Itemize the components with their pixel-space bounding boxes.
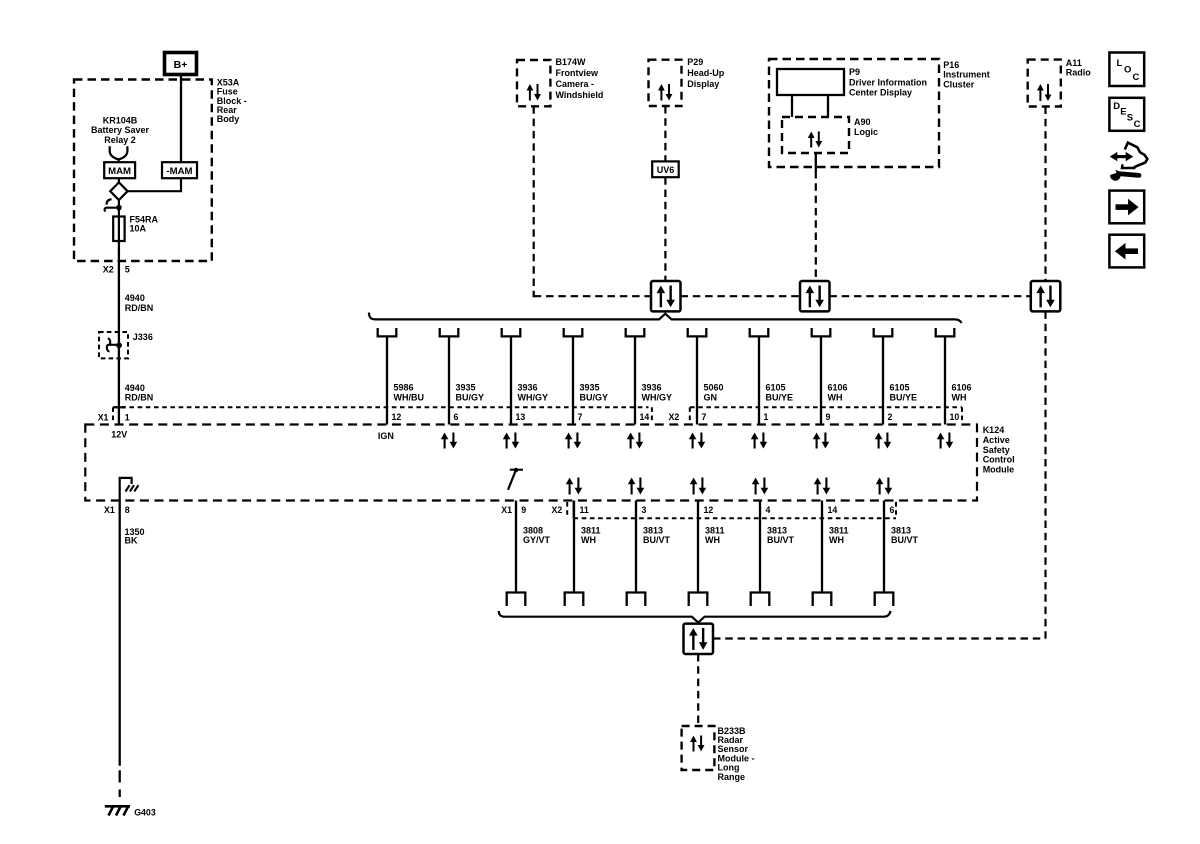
svg-text:GY/VT: GY/VT [523, 535, 551, 545]
logic unit A90 dashed box [782, 117, 849, 153]
serial data bus segment 1 dashed [534, 295, 651, 297]
wire A11 node down to radar bus dashed [1044, 311, 1046, 638]
arrows inside B233B [690, 736, 704, 752]
terminal of wire 3936 WH/GY [626, 328, 645, 336]
svg-text:RD/BN: RD/BN [125, 393, 154, 403]
svg-text:WH: WH [829, 535, 844, 545]
terminal of wire 3813 BU/VT row2 [875, 593, 894, 607]
splice J336 symbol [107, 338, 122, 351]
wire P29 to UV6 dashed [664, 106, 666, 161]
svg-text:6105: 6105 [766, 383, 786, 393]
wire label 6105 BU/YE [890, 383, 918, 403]
pin 9 row2 [521, 505, 526, 515]
pin number 6 row2 [890, 505, 895, 515]
wire 5986 WH/BU to pin 12 [386, 336, 388, 424]
radar bus horizontal dashed [713, 637, 1046, 639]
svg-text:14: 14 [640, 412, 650, 422]
svg-text:A90: A90 [854, 117, 871, 127]
svg-text:Body: Body [217, 114, 240, 124]
svg-text:13: 13 [516, 412, 526, 422]
label P29 Head-Up Display [687, 57, 725, 89]
label A90 Logic [854, 117, 878, 137]
svg-text:P9: P9 [849, 67, 860, 77]
wire 6105 BU/YE to pin 1 [758, 336, 760, 424]
wire A90 stub solid [815, 153, 817, 171]
terminal of wire 3813 BU/VT row2 [627, 593, 646, 607]
terminal of wire 6106 WH [936, 328, 955, 336]
pin label X1 row2 [501, 505, 512, 515]
sidebar diagnostic icon wrench [1107, 167, 1139, 181]
svg-text:3811: 3811 [705, 525, 725, 535]
svg-text:11: 11 [580, 505, 589, 515]
svg-text:WH: WH [581, 535, 596, 545]
svg-text:WH: WH [705, 535, 720, 545]
pin label X2 row2 [552, 505, 563, 515]
svg-text:BU/VT: BU/VT [767, 535, 795, 545]
module K124 dashed outline [85, 425, 977, 501]
pin number 2 row1 [888, 412, 893, 422]
wire label 3936 WH/GY [518, 383, 549, 403]
svg-text:Logic: Logic [854, 127, 878, 137]
terminal of wire 3813 BU/VT row2 [751, 593, 770, 607]
module arrows below pin at x=511 [503, 433, 519, 449]
svg-text:-MAM: -MAM [166, 166, 192, 177]
label X53A Fuse Block - Rear Body [217, 77, 247, 124]
pin label X1 row2-left [104, 505, 115, 515]
wire P9 left stub [791, 95, 793, 117]
wire 6105 BU/YE to pin 2 [882, 336, 884, 424]
pin 1 (12V) [125, 413, 130, 423]
pin strip row 1 dotted [113, 407, 962, 423]
wire fuse to J336 [118, 241, 120, 345]
wire label 5060 GN [704, 383, 724, 403]
module arrows below pin at x=635 [627, 433, 643, 449]
wire A11 to serial-data node dashed [1044, 107, 1046, 282]
svg-text:2: 2 [888, 412, 893, 422]
terminal of wire 3811 WH row2 [565, 593, 584, 607]
terminal of wire 3935 BU/GY [564, 328, 583, 336]
pin number 12 row2 [704, 505, 714, 515]
display P29 dashed box [649, 60, 682, 106]
svg-text:G403: G403 [134, 807, 156, 817]
svg-text:X1: X1 [501, 505, 512, 515]
wire label 6106 WH [952, 383, 972, 403]
wire -MAM to diamond [128, 178, 181, 191]
terminal of wire 6105 BU/YE [750, 328, 769, 336]
svg-text:X1: X1 [98, 413, 109, 423]
svg-text:Camera -: Camera - [556, 79, 595, 89]
svg-text:12: 12 [704, 505, 714, 515]
svg-text:3: 3 [642, 505, 647, 515]
pin number 12 row1 [392, 412, 402, 422]
svg-text:BU/YE: BU/YE [890, 393, 918, 403]
wire B174W drop to bus dashed [533, 106, 535, 297]
pin number 6 row1 [454, 412, 459, 422]
svg-text:3811: 3811 [581, 525, 601, 535]
serial data arrow box node 1 [651, 281, 681, 311]
radar module B233B dashed box [682, 726, 715, 770]
wire 6106 WH to pin 9 [820, 336, 822, 424]
wire 3936 WH/GY to pin 14 [634, 336, 636, 424]
svg-text:UV6: UV6 [657, 165, 675, 175]
module arrows below pin at x=821 [813, 433, 829, 449]
sidebar prev-page arrow box [1109, 235, 1144, 268]
svg-text:WH/BU: WH/BU [394, 393, 425, 403]
svg-text:Radio: Radio [1066, 68, 1092, 78]
svg-text:3936: 3936 [518, 383, 538, 393]
svg-text:BU/VT: BU/VT [643, 535, 671, 545]
svg-text:Driver Information: Driver Information [849, 77, 927, 87]
module arrows below pin at x=945 [937, 433, 953, 449]
module arrows below pin at x=449 [441, 433, 457, 449]
svg-text:X2: X2 [669, 412, 680, 422]
module arrows below pin at x=697 [689, 433, 705, 449]
svg-text:Range: Range [718, 772, 746, 782]
module arrows above pin at x=574 [566, 478, 582, 495]
svg-text:E: E [1120, 106, 1126, 117]
pin 8 [125, 505, 130, 515]
svg-text:BU/GY: BU/GY [456, 393, 485, 403]
pin strip row 2 dotted [567, 501, 896, 519]
wire diamond to fuse F54RA [118, 200, 120, 241]
svg-text:10A: 10A [130, 224, 147, 234]
svg-text:S: S [1127, 113, 1133, 124]
svg-text:5060: 5060 [704, 383, 724, 393]
wire bottom node to B233B dashed [697, 654, 699, 726]
wire A90 to serial-data node dashed [815, 171, 817, 281]
svg-text:6105: 6105 [890, 383, 910, 393]
svg-text:IGN: IGN [378, 431, 394, 441]
svg-text:3813: 3813 [643, 525, 663, 535]
terminal of wire 5986 WH/BU [378, 328, 397, 336]
svg-text:3813: 3813 [891, 525, 911, 535]
wire 3813 BU/VT from pin 4 [759, 501, 761, 593]
svg-text:X2: X2 [103, 265, 114, 275]
svg-text:Head-Up: Head-Up [687, 68, 725, 78]
svg-text:7: 7 [702, 412, 707, 422]
wire label 3813 BU/VT row2 [643, 525, 671, 545]
wire label 6105 BU/YE [766, 383, 794, 403]
relay terminal -MAM [162, 162, 197, 178]
svg-text:BU/GY: BU/GY [580, 393, 609, 403]
serial data bus segment 3 dashed [829, 295, 1030, 297]
ground G403 symbol [105, 806, 130, 815]
pin label X2 | 5 [103, 265, 130, 275]
module arrows below pin at x=759 [751, 433, 767, 449]
svg-text:9: 9 [521, 505, 526, 515]
wire label 4940 RD/BN lower [125, 383, 154, 403]
svg-text:C: C [1133, 72, 1140, 83]
svg-text:WH/GY: WH/GY [518, 393, 549, 403]
pin number 7 row1 [578, 412, 583, 422]
svg-text:6: 6 [454, 412, 459, 422]
svg-text:1: 1 [125, 413, 130, 423]
svg-text:5986: 5986 [394, 383, 414, 393]
serial data arrow box node 2 [800, 281, 830, 311]
pin number 13 row1 [516, 412, 526, 422]
module arrows above pin at x=884 [876, 478, 892, 495]
wire 3811 WH from pin 11 [573, 501, 575, 593]
svg-text:C: C [1134, 119, 1141, 130]
svg-text:WH: WH [828, 393, 843, 403]
svg-text:Control: Control [983, 455, 1015, 465]
svg-text:WH: WH [952, 393, 967, 403]
instrument cluster P16 dashed box [769, 59, 939, 167]
terminal of wire 3811 WH row2 [689, 593, 708, 607]
pin label X2 row1 [669, 412, 680, 422]
svg-text:Module: Module [983, 465, 1015, 475]
wire P9 right stub [827, 95, 829, 117]
tick at pin X1-1 [113, 406, 125, 408]
label F54RA 10A [130, 215, 159, 234]
wire J336 to module pin X1-1 [118, 345, 120, 425]
svg-text:5: 5 [125, 265, 130, 275]
svg-text:B+: B+ [174, 59, 188, 71]
svg-text:B174W: B174W [556, 57, 587, 67]
svg-text:KR104B: KR104B [103, 115, 138, 125]
pin number 1 row1 [764, 412, 769, 422]
arrows inside A11 [1037, 84, 1051, 101]
wire label 3935 BU/GY [456, 383, 485, 403]
wire 3813 BU/VT from pin 3 [635, 501, 637, 593]
splice J336 dashed box [99, 332, 128, 358]
sidebar next-page arrow box [1109, 191, 1144, 224]
svg-text:1: 1 [764, 412, 769, 422]
radio A11 dashed box [1028, 60, 1061, 107]
camera B174W dashed box [517, 60, 550, 106]
wire 6106 WH to pin 10 [944, 336, 946, 424]
wire UV6 to serial-data node dashed [664, 177, 666, 281]
svg-text:7: 7 [578, 412, 583, 422]
wire 1350 BK dashed tail [119, 770, 121, 797]
arrows inside P29 [658, 84, 672, 101]
svg-text:9: 9 [826, 412, 831, 422]
svg-text:Display: Display [687, 79, 719, 89]
label P9 Driver Information Center Display [849, 67, 927, 98]
label G403 [134, 807, 156, 817]
arrows inside B174W [527, 84, 541, 101]
svg-text:6: 6 [890, 505, 895, 515]
relay KR104B coil bracket [110, 146, 128, 162]
wire label 5986 WH/BU [394, 383, 425, 403]
wire 3935 BU/GY to pin 6 [448, 336, 450, 424]
wire label 3811 WH row2 [705, 525, 725, 545]
svg-text:3935: 3935 [580, 383, 600, 393]
module arrows below pin at x=883 [875, 433, 891, 449]
wire 3935 BU/GY to pin 7 [572, 336, 574, 424]
arrows inside A90 [808, 132, 822, 148]
svg-text:P16: P16 [943, 60, 959, 70]
svg-text:3808: 3808 [523, 525, 543, 535]
svg-text:3811: 3811 [829, 525, 849, 535]
svg-text:6106: 6106 [952, 383, 972, 393]
wire 5060 GN to pin 7 [696, 336, 698, 424]
pin number 14 row2 [828, 505, 838, 515]
brace gathering row-2 wires [499, 611, 891, 623]
relay contact symbol [105, 199, 119, 211]
wire B+ to -MAM [180, 75, 182, 163]
wire 3808 GY/VT from pin X1-9 [515, 501, 517, 593]
wire label 3813 BU/VT row2 [767, 525, 795, 545]
pin number 7 row1 [702, 412, 707, 422]
fuse block X53A dashed outline [74, 80, 212, 262]
svg-text:WH/GY: WH/GY [642, 393, 673, 403]
svg-text:MAM: MAM [108, 166, 131, 177]
wire label 3811 WH row2 [581, 525, 601, 545]
pin number 3 row2 [642, 505, 647, 515]
terminal of wire 3936 WH/GY [502, 328, 521, 336]
diamond junction node [110, 182, 127, 200]
svg-text:12: 12 [392, 412, 402, 422]
switch symbol inside module at pin X1-9 [508, 468, 523, 490]
net label IGN [378, 431, 394, 441]
wire label 3936 WH/GY [642, 383, 673, 403]
terminal of wire 3811 WH row2 [813, 593, 832, 607]
svg-text:4940: 4940 [125, 383, 145, 393]
pin number 11 row2 [580, 505, 589, 515]
svg-text:O: O [1124, 65, 1131, 76]
wire label 3808 GY/VT [523, 525, 551, 545]
wire 3813 BU/VT from pin 6 [883, 501, 885, 593]
terminal of wire 6105 BU/YE [874, 328, 893, 336]
svg-text:Safety: Safety [983, 445, 1010, 455]
module arrows above pin at x=760 [752, 478, 768, 495]
svg-text:Center Display: Center Display [849, 88, 912, 98]
label J336 [133, 332, 153, 342]
svg-text:GN: GN [704, 393, 718, 403]
svg-text:3936: 3936 [642, 383, 662, 393]
display P9 solid box [777, 69, 844, 95]
wire 3811 WH from pin 14 [821, 501, 823, 593]
junction dot [116, 205, 122, 211]
terminal of wire 6106 WH [812, 328, 831, 336]
svg-text:RD/BN: RD/BN [125, 303, 154, 313]
sidebar diagnostic icon car outline [1122, 143, 1148, 168]
module arrows above pin at x=698 [690, 478, 706, 495]
svg-text:Cluster: Cluster [943, 79, 975, 89]
svg-text:4940: 4940 [125, 293, 145, 303]
svg-text:8: 8 [125, 505, 130, 515]
serial data bus segment 2 dashed [681, 295, 801, 297]
module arrows above pin at x=636 [628, 478, 644, 495]
svg-text:J336: J336 [133, 332, 153, 342]
svg-text:4: 4 [766, 505, 771, 515]
sidebar diagnostic icon double arrow [1110, 152, 1133, 161]
pin number 14 row1 [640, 412, 650, 422]
svg-text:6106: 6106 [828, 383, 848, 393]
label K124 Active Safety Control Module [983, 425, 1015, 475]
svg-text:P29: P29 [687, 57, 703, 67]
wire 1350 BK solid [119, 501, 121, 766]
wire label 1350 BK [125, 527, 145, 546]
svg-text:D: D [1113, 101, 1120, 112]
svg-text:14: 14 [828, 505, 838, 515]
net label 12V [111, 430, 127, 440]
wire 3811 WH from pin 12 [697, 501, 699, 593]
pin number 9 row1 [826, 412, 831, 422]
sidebar DESC box [1109, 98, 1144, 131]
svg-text:Frontview: Frontview [556, 68, 600, 78]
module arrows below pin at x=573 [565, 433, 581, 449]
svg-text:X2: X2 [552, 505, 563, 515]
wire label 3813 BU/VT row2 [891, 525, 919, 545]
wire label 4940 RD/BN upper [125, 293, 154, 313]
module arrows above pin at x=822 [814, 478, 830, 495]
svg-text:L: L [1117, 58, 1123, 69]
fuse F54RA 10A body [113, 217, 124, 242]
svg-text:BU/VT: BU/VT [891, 535, 919, 545]
wire label 3811 WH row2 [829, 525, 849, 545]
label A11 Radio [1066, 58, 1092, 77]
terminal of wire 3935 BU/GY [440, 328, 459, 336]
svg-text:Instrument: Instrument [943, 70, 990, 80]
label B174W Frontview Camera - Windshield [556, 57, 604, 100]
pin label X1 row1 [98, 413, 109, 423]
svg-text:Battery Saver: Battery Saver [91, 125, 150, 135]
serial data arrow box bottom [684, 624, 714, 654]
svg-text:3935: 3935 [456, 383, 476, 393]
svg-text:Relay 2: Relay 2 [104, 135, 136, 145]
power symbol B+ [165, 53, 197, 75]
wire label 3935 BU/GY [580, 383, 609, 403]
sidebar LOC box [1109, 53, 1144, 87]
terminal of wire 5060 GN [688, 328, 707, 336]
wire label 6106 WH [828, 383, 848, 403]
ground symbol inside module at pin X1-8 [120, 478, 139, 501]
wire MAM to diamond node [118, 178, 120, 183]
svg-text:Windshield: Windshield [556, 90, 604, 100]
relay terminal MAM [104, 162, 135, 178]
svg-text:X1: X1 [104, 505, 115, 515]
pin number 10 row1 [950, 412, 960, 422]
label B233B Radar Sensor Module - Long Range [718, 726, 755, 782]
svg-text:12V: 12V [111, 430, 127, 440]
svg-text:Active: Active [983, 435, 1010, 445]
brace gathering row-1 wires [369, 313, 962, 323]
label KR104B Battery Saver Relay 2 [91, 115, 150, 145]
label P16 Instrument Cluster [943, 60, 990, 90]
svg-text:3813: 3813 [767, 525, 787, 535]
svg-text:BU/YE: BU/YE [766, 393, 794, 403]
svg-text:BK: BK [125, 536, 138, 546]
svg-text:K124: K124 [983, 425, 1005, 435]
serial data arrow box node 3 [1031, 281, 1061, 311]
pin number 4 row2 [766, 505, 771, 515]
option code UV6 box [652, 161, 679, 177]
wire 3936 WH/GY to pin 13 [510, 336, 512, 424]
svg-text:10: 10 [950, 412, 960, 422]
terminal of wire 3808 GY/VT [507, 593, 526, 607]
